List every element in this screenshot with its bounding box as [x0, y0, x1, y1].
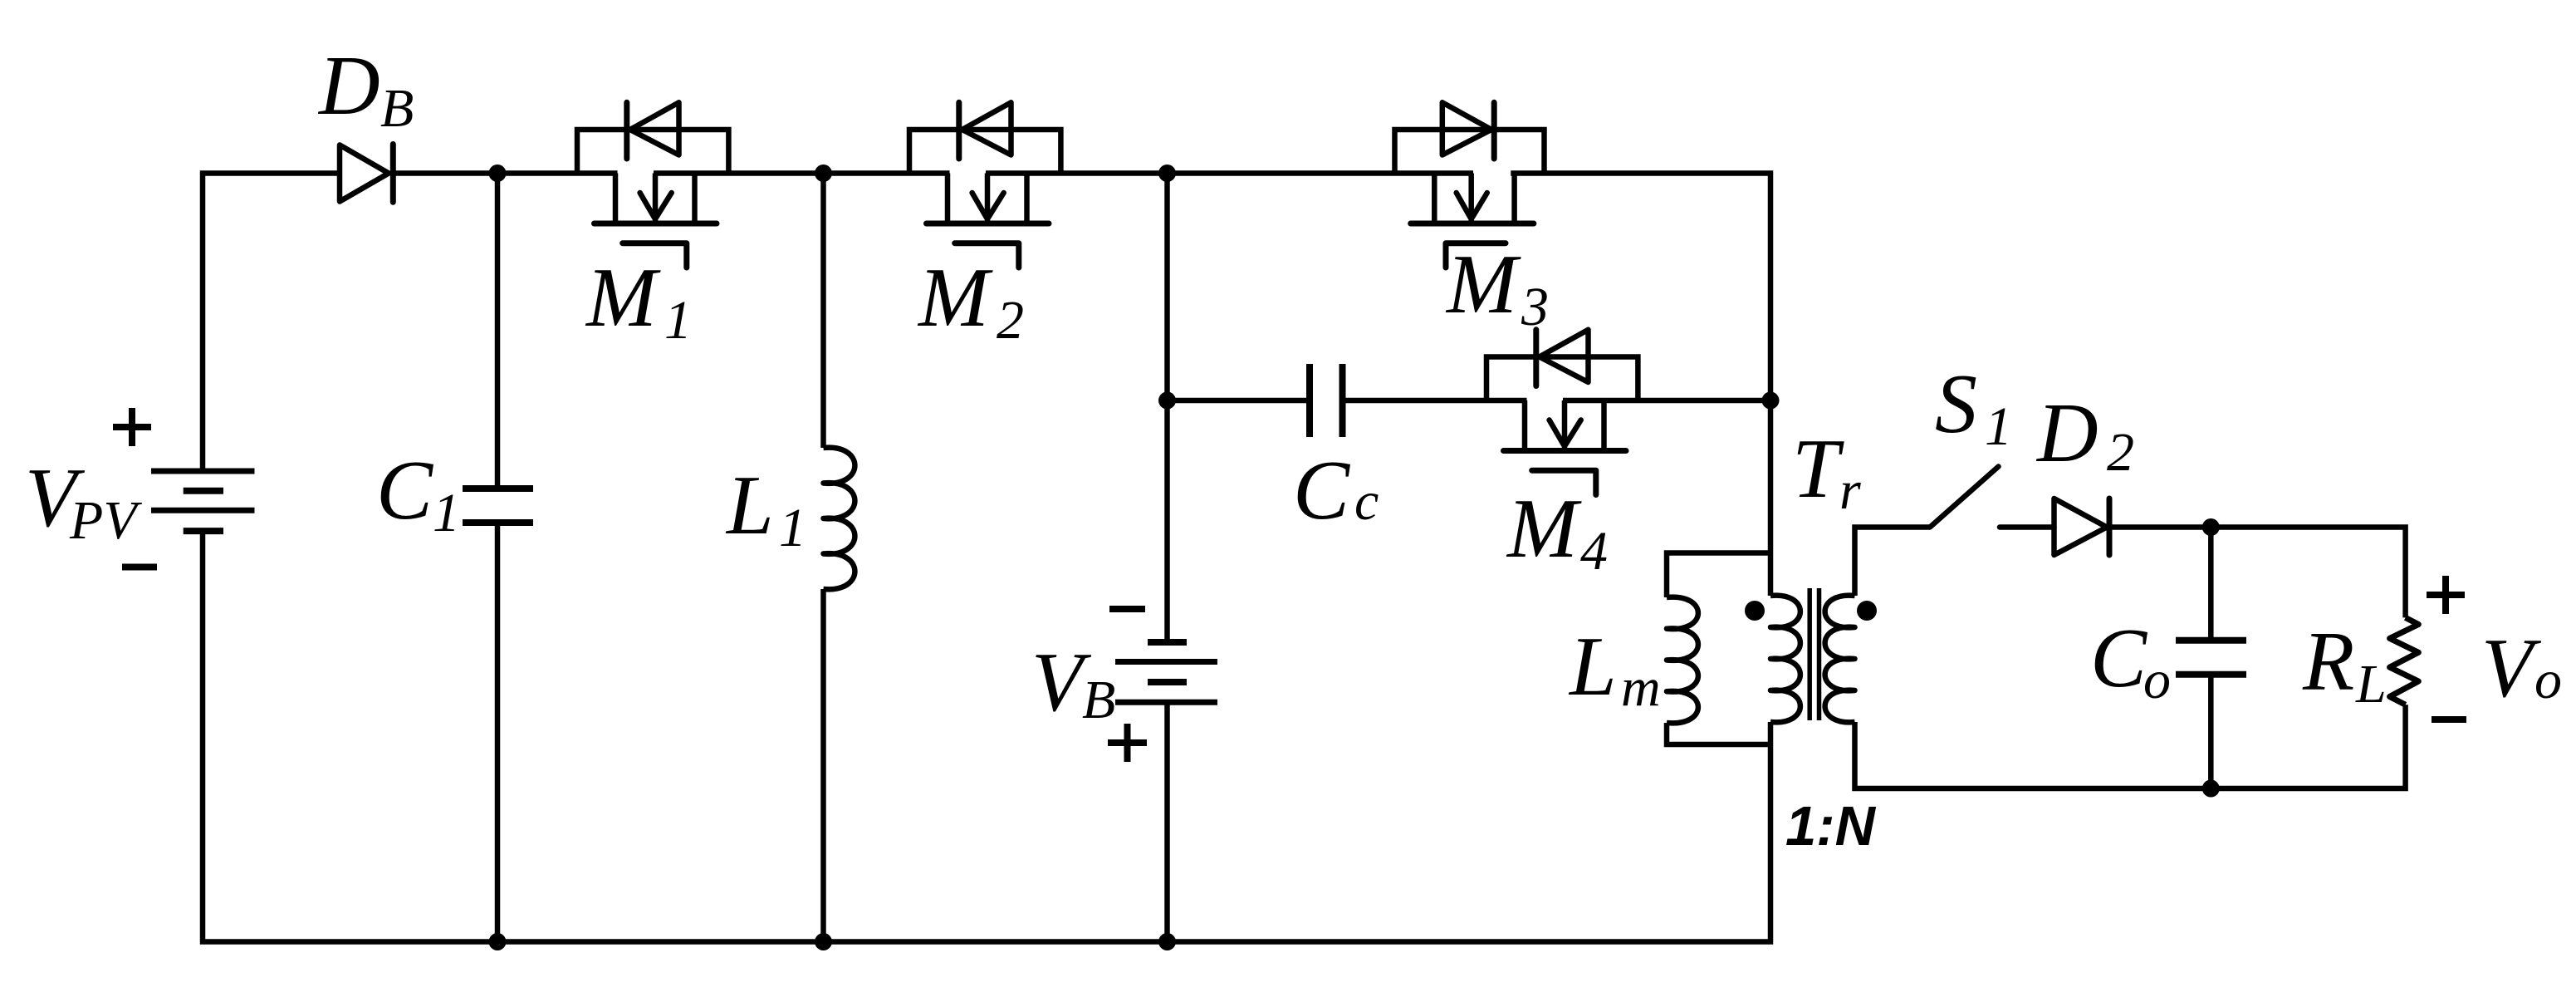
transformer secondary phase dot [1857, 601, 1877, 621]
node: M4 branch junction [1762, 392, 1780, 410]
source VPV (battery) [151, 469, 255, 474]
svg-text:V: V [2481, 621, 2542, 715]
svg-text:M: M [1445, 238, 1521, 331]
plus mark VB [1108, 739, 1147, 746]
node: L1 top junction [815, 165, 832, 182]
transistor M4 [1486, 357, 1638, 401]
diode D2 [2054, 498, 2108, 555]
wire: secondary top lead [1855, 528, 1931, 597]
svg-text:1: 1 [664, 290, 692, 351]
svg-text:o: o [2143, 650, 2171, 710]
capacitor C1 [495, 174, 501, 489]
transistor M1 [577, 130, 728, 174]
source VB (battery) [1164, 174, 1170, 643]
node: C1 top junction [489, 165, 507, 182]
minus mark VB [1109, 606, 1145, 612]
switch S1 [1930, 467, 1999, 528]
svg-text:M: M [585, 251, 661, 345]
node: C1 bottom junction [489, 933, 507, 950]
svg-text:R: R [2302, 615, 2354, 709]
wire: M4 to right vertical [1563, 398, 1770, 404]
svg-text:S: S [1935, 357, 1977, 451]
node: VB bottom junction [1158, 933, 1176, 950]
svg-text:1: 1 [433, 483, 460, 543]
svg-text:D: D [2035, 386, 2099, 480]
node: Co bottom junction [2202, 780, 2220, 798]
wire: bottom rail [203, 531, 1770, 941]
svg-text:r: r [1839, 460, 1861, 521]
inductor Lm [1667, 553, 1770, 598]
svg-text:c: c [1354, 471, 1379, 532]
wire: output bottom rail [1855, 705, 2406, 788]
svg-text:L: L [1568, 620, 1617, 714]
svg-text:D: D [317, 39, 380, 133]
transformer Tr secondary winding [1825, 596, 1855, 723]
node: Co top junction [2202, 518, 2220, 536]
svg-text:L: L [725, 459, 774, 552]
inductor L1 [820, 174, 826, 449]
plus mark VPV [113, 424, 151, 430]
minus mark RL [2432, 716, 2466, 723]
svg-text:C: C [1293, 444, 1350, 538]
svg-text:1: 1 [779, 498, 806, 558]
svg-text:C: C [2090, 611, 2147, 705]
svg-text:1: 1 [1985, 396, 2012, 457]
capacitor Cc [1306, 364, 1313, 437]
transformer core [1807, 588, 1812, 720]
transistor M2 [909, 130, 1060, 174]
svg-text:M: M [917, 251, 993, 345]
svg-text:PV: PV [69, 490, 142, 551]
transformer Tr primary winding [1770, 596, 1800, 723]
svg-text:1:N: 1:N [1785, 795, 1877, 857]
node: VB top junction [1158, 165, 1176, 182]
node: VB mid junction (Cc branch) [1158, 392, 1176, 410]
minus mark VPV [122, 564, 157, 571]
svg-text:B: B [380, 78, 414, 139]
resistor RL [2390, 617, 2419, 705]
svg-text:M: M [1506, 482, 1582, 576]
wire: mid branch [1168, 398, 1310, 404]
transistor M3 [1395, 130, 1545, 174]
svg-text:B: B [1082, 670, 1115, 730]
svg-text:m: m [1621, 657, 1661, 718]
svg-text:o: o [2534, 650, 2562, 710]
svg-text:C: C [376, 444, 433, 538]
capacitor Co [2208, 528, 2214, 641]
node: L1 bottom junction [815, 933, 832, 950]
svg-text:T: T [1792, 422, 1844, 516]
wire: top rail segments [203, 174, 340, 472]
svg-text:L: L [2355, 654, 2387, 715]
transformer primary phase dot [1745, 601, 1765, 621]
diode DB [340, 145, 389, 202]
svg-text:4: 4 [1580, 521, 1608, 582]
svg-text:2: 2 [2107, 422, 2134, 483]
wire: output top [2109, 528, 2406, 618]
svg-text:2: 2 [997, 290, 1024, 351]
plus mark RL [2427, 592, 2465, 598]
